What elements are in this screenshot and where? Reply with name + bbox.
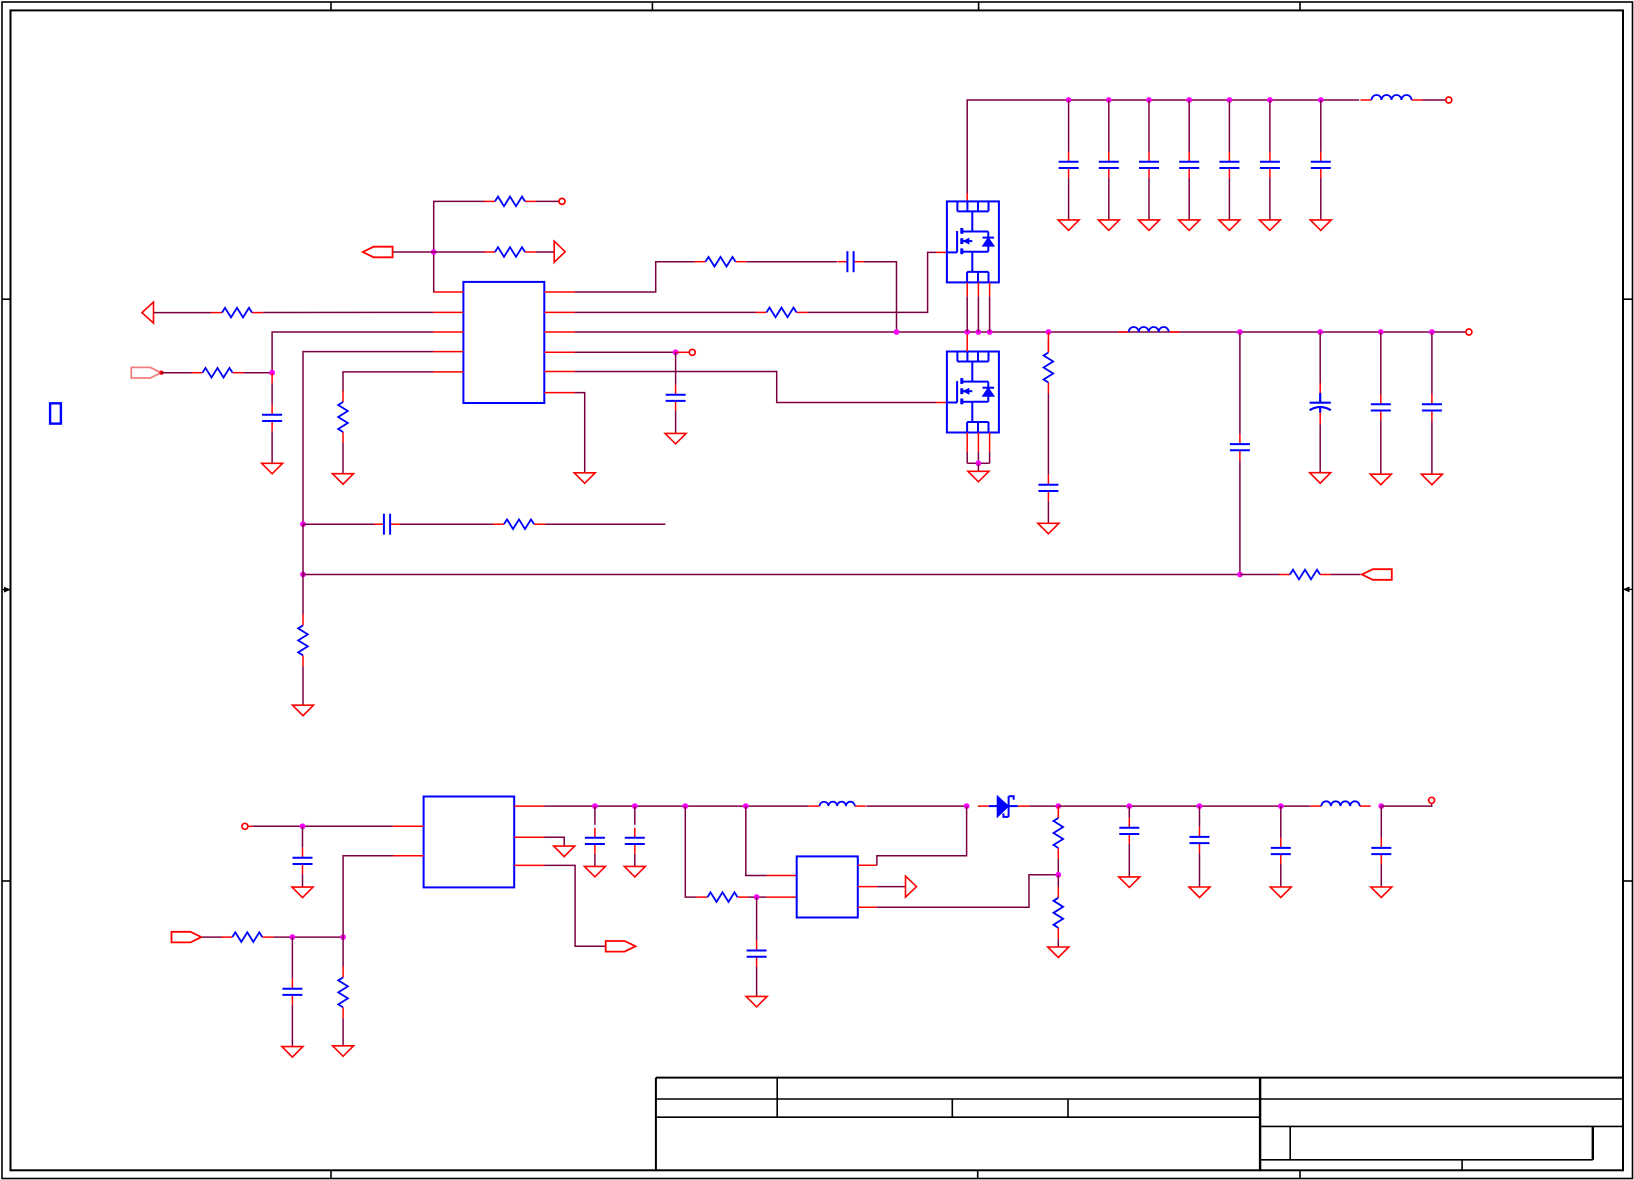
wire EN2 to C21 [291, 937, 293, 979]
ground G13 [968, 471, 989, 482]
wire R15 to ground [342, 1018, 344, 1045]
wire T2 to R3 [154, 312, 212, 314]
resistor R17 [1054, 807, 1064, 859]
capacitor C1 [262, 405, 282, 431]
capacitor C10 [1311, 152, 1331, 178]
wire C8 to ground [1228, 178, 1230, 220]
capacitor C22 [585, 828, 605, 854]
ground G26 [1119, 877, 1140, 888]
capacitor C26 [1190, 827, 1210, 853]
resistor R18 [1054, 887, 1064, 939]
ground G22 [584, 866, 605, 877]
wire VIN to C10 [1320, 100, 1322, 152]
wire EN2 to U2 pin2 [343, 856, 393, 937]
ground G25 [1048, 947, 1069, 958]
wire VOUT to C18 [1431, 332, 1433, 394]
capacitor C15 [1230, 434, 1250, 460]
junction EN2-pin [340, 934, 346, 940]
capacitor C8 [1219, 152, 1239, 178]
wire C20 to ground [302, 874, 304, 887]
capacitor C27 [1271, 838, 1291, 864]
wire FBIN to C1 [271, 383, 273, 405]
junction SW-Q1a [964, 329, 970, 335]
wire VIN to C4 [1068, 100, 1070, 152]
wire C21 to ground [291, 1005, 293, 1047]
wire VIN to C6 [1148, 100, 1150, 152]
wire VIN to C5 [1108, 100, 1110, 152]
resistor R16 [697, 892, 749, 902]
junction VIN2-C20 [300, 823, 306, 829]
wire Q2 source bus b [977, 452, 979, 464]
off-page connector T3 [906, 876, 917, 897]
resistor R11 [493, 519, 545, 529]
capacitor C28 [1371, 838, 1391, 864]
wire VOUT2 to C28 [1380, 806, 1382, 838]
capacitor C21 [282, 979, 302, 1005]
inductor L2 [1118, 327, 1180, 332]
unplaced part outline [50, 403, 61, 423]
capacitor C4 [1059, 152, 1079, 178]
ground G17 [1421, 474, 1442, 485]
capacitor C5 [1099, 152, 1119, 178]
capacitor C7 [1179, 152, 1199, 178]
junction FB-comp [300, 521, 306, 527]
wire Q2 source to ground [977, 463, 979, 471]
output terminal TP6 [1429, 797, 1435, 803]
wire C2 to node SW [864, 262, 897, 332]
resistor R6 [298, 614, 308, 666]
wire R7 to ground [342, 443, 344, 474]
R10 pin stub [1047, 332, 1049, 352]
wire FB node vertical [302, 524, 304, 614]
junction VIN-C10 [1318, 97, 1324, 103]
MOSFET Q1 (high side) [947, 201, 999, 282]
wire R18 to ground [1057, 939, 1059, 947]
wire C16 to ground [1319, 424, 1321, 472]
wire C15 to node FBOUT [1239, 460, 1241, 574]
wire VOUT2 to C26 [1199, 806, 1201, 827]
wire Q1 source c to SW [989, 297, 991, 332]
wire C5 to ground [1108, 178, 1110, 220]
FBIN stub [271, 373, 273, 383]
junction node VCC [673, 349, 679, 355]
ground G8 [1139, 220, 1160, 231]
wire VIN2 to C20 [302, 826, 304, 848]
capacitor C3 [666, 385, 686, 411]
resistor R8 [695, 257, 747, 267]
input terminal TP5 [242, 823, 248, 829]
Q1 gate pin stub [936, 251, 947, 253]
wire R8 to C2 [747, 261, 838, 263]
wire U1 pin10 to lower gate [575, 372, 936, 403]
resistor R9 [756, 308, 808, 318]
R17 pin stub [1057, 806, 1059, 818]
wire C6 to ground [1148, 178, 1150, 220]
resistor R13 [1279, 570, 1331, 580]
wire C26 to ground [1199, 853, 1201, 887]
input port connector P4 [172, 932, 202, 943]
wire R1 to test point [536, 200, 559, 202]
wire P1 to R2 [393, 251, 485, 253]
wire FB to FBOUT [303, 574, 1240, 576]
junction D1 anode [964, 803, 970, 809]
wire Q1 source b to SW [977, 297, 979, 332]
wire VREG rail [545, 805, 809, 807]
left centering arrow [2, 587, 11, 593]
capacitor C18 [1422, 394, 1442, 420]
U2 left pins [393, 826, 424, 855]
junction VREG-C22 [592, 803, 598, 809]
capacitor C24 [747, 941, 767, 967]
wire VOUT2 to C25 [1128, 806, 1130, 818]
wire VOUT to C17 [1380, 332, 1382, 394]
wire VIN to C8 [1228, 100, 1230, 152]
junction node EN [431, 249, 437, 255]
junction VIN-C9 [1267, 97, 1273, 103]
wire C19 to R11 [400, 523, 496, 525]
junction FB-divider [300, 572, 306, 578]
junction VOUT-C18 [1429, 329, 1435, 335]
ground G18 [292, 887, 313, 898]
junction VOUT2-C28 [1378, 803, 1384, 809]
wire Q2 source bus join [967, 462, 989, 464]
capacitor C20 [293, 848, 313, 874]
wire Q1 source a to SW [966, 297, 968, 332]
resistor R15 [338, 966, 348, 1018]
wire VIN to C9 [1269, 100, 1271, 152]
wire R6 to ground [302, 666, 304, 705]
wire U1 pin1 to node EN [434, 201, 485, 292]
capacitor C19 [374, 514, 400, 535]
wire U3 pin2 to arrow [877, 886, 905, 888]
wire VREG branch b down [746, 806, 767, 875]
ground G23 [624, 866, 645, 877]
Q1 drain pin stub [966, 193, 968, 201]
wire C1 to ground [271, 431, 273, 463]
wire C9 to ground [1269, 178, 1271, 220]
wire U1 pin11 to ground [575, 393, 585, 473]
ground G14 [1038, 523, 1059, 534]
junction U3 in [754, 894, 760, 900]
junction VOUT-C17 [1378, 329, 1384, 335]
resistor R2 [484, 247, 536, 257]
wire C18 to ground [1431, 420, 1433, 474]
wire C3 to ground [675, 411, 677, 434]
U1 left pins 1-5 [433, 292, 463, 372]
junction VREG-a [682, 803, 688, 809]
resistor R4 [192, 368, 244, 378]
inductor L1 (ferrite bead) [1361, 95, 1423, 100]
right centering arrow [1623, 586, 1633, 592]
junction SW-Rsnub [1046, 329, 1052, 335]
wire node SW rail [575, 331, 1466, 333]
junction VIN-C5 [1106, 97, 1112, 103]
capacitor C17 [1371, 394, 1391, 420]
ground G2 [293, 705, 314, 716]
junction VIN-C4 [1066, 97, 1072, 103]
wire C27 to ground [1280, 864, 1282, 887]
capacitor C16 (polarized) [1310, 383, 1331, 424]
title block [656, 1078, 1623, 1171]
U3 right pin stubs [858, 865, 877, 907]
wire C13 to ground [1047, 501, 1049, 523]
junction SW-RC [894, 329, 900, 335]
wire VIN to C7 [1188, 100, 1190, 152]
wire VOUT to C16 [1319, 332, 1321, 383]
wire EN2 to R15 [342, 937, 344, 966]
wire U1 pin3 to node FBIN [272, 332, 433, 373]
wire Q2 source bus c [989, 452, 991, 464]
ground G28 [1270, 887, 1291, 898]
inductor L4 [1310, 801, 1370, 806]
wire SW to C15 [1239, 332, 1241, 434]
wire U3 pin3 to divider [877, 875, 1058, 908]
test point terminal TP3 [689, 349, 695, 355]
wire VREG to C23 [634, 806, 636, 825]
Q2 source pin stubs [967, 433, 989, 452]
wire VREG to C22 [594, 806, 596, 825]
input terminal TP4 [1446, 97, 1452, 103]
wire C7 to ground [1188, 178, 1190, 220]
schottky diode D1 [978, 796, 1029, 817]
junction VREG-b [743, 803, 749, 809]
wire R4 to node FBIN [244, 372, 273, 374]
wire U2 pin4 to ground [545, 837, 565, 846]
Q1 source pin stubs [967, 283, 989, 297]
junction VIN-C7 [1186, 97, 1192, 103]
capacitor C2 [838, 251, 864, 272]
ground G7 [1098, 220, 1119, 231]
junction VOUT2-C26 [1197, 803, 1203, 809]
ground G9 [1179, 220, 1200, 231]
wire R3 to U1 pin2 [263, 311, 433, 313]
ground G16 [1370, 474, 1391, 485]
wire to terminal TP6 [1381, 803, 1431, 806]
wire C10 to ground [1320, 178, 1322, 220]
regulator IC U2 [424, 797, 515, 888]
Q2 drain pin stub [966, 334, 968, 351]
wire R16 to U3 [749, 896, 767, 898]
ground G11 [1259, 220, 1280, 231]
junction node ADJ [1055, 872, 1061, 878]
VCC pin stub [676, 351, 690, 353]
wire U3 in to C24 [756, 897, 758, 940]
wire D1 to VOUT2 [1029, 805, 1058, 807]
wire U1 pin7 to upper gate [575, 311, 756, 313]
wire R9 to Q1 gate [808, 252, 937, 312]
ground G5 [574, 473, 595, 484]
wire R13 to port P3 [1331, 574, 1361, 576]
input port connector P2 [131, 367, 161, 378]
wire U2 pin5 to port [545, 865, 606, 946]
junction VOUT-C16 [1317, 329, 1323, 335]
wire FB comp branch [303, 523, 376, 525]
controller IC U1 [463, 282, 544, 403]
capacitor C25 [1119, 818, 1139, 844]
ground G4 [665, 433, 686, 444]
junction Q2 source [976, 460, 982, 466]
wire VOUT2 to C27 [1280, 806, 1282, 838]
junction SW-Q1c [987, 329, 993, 335]
resistor R10 [1044, 342, 1054, 394]
capacitor C13 [1038, 475, 1058, 501]
capacitor C6 [1139, 152, 1159, 178]
ground G24 [746, 996, 767, 1007]
MOSFET Q2 (low side) [947, 352, 999, 433]
wire C22 to ground [594, 854, 596, 866]
wire VREG branch a down [685, 806, 696, 897]
junction EN2-C21 [290, 934, 296, 940]
wire U1 pin5 to R7 [343, 372, 433, 392]
resistor R14 [221, 932, 273, 942]
resistor R1 [484, 197, 536, 207]
off-page connector T1 [554, 241, 565, 262]
junction SW-C15 [1237, 329, 1243, 335]
wire VOUT2 rail [1058, 805, 1310, 807]
supervisor IC U3 [797, 856, 858, 917]
wire C24 to ground [756, 967, 758, 997]
wire C28 to ground [1380, 864, 1382, 887]
port connector P5 [606, 941, 636, 952]
ground G19 [282, 1047, 303, 1058]
wire R14 to node EN2 [273, 936, 343, 938]
junction node FBIN [269, 370, 275, 376]
ground G3 [333, 474, 354, 485]
resistor R7 [338, 391, 348, 443]
wire R2 to off-page arrow [536, 251, 554, 253]
wire L1 to terminal [1422, 99, 1445, 101]
wire TP5 to U2 [253, 825, 393, 827]
output terminal TP2 [1466, 329, 1472, 335]
wire L3 to D1 [866, 805, 966, 807]
wire R10 to C13 [1047, 394, 1049, 475]
wire U1 pin4 to node FB [303, 352, 433, 525]
wire VCC to C3 [675, 352, 677, 384]
ground G1 [262, 463, 283, 474]
junction VOUT2-C25 [1126, 803, 1132, 809]
wire FBOUT to R13 [1240, 574, 1280, 576]
capacitor C23 [625, 828, 645, 854]
wire U1 pin6 to R8 [575, 262, 695, 292]
U3 left pin stubs [767, 876, 797, 898]
wire C25 to ground [1128, 844, 1130, 877]
wire R11 stub end [545, 523, 665, 525]
wire ADJ to R18 [1057, 875, 1059, 887]
inductor L3 [809, 802, 866, 806]
ground G15 [1310, 473, 1331, 484]
junction VIN-C6 [1146, 97, 1152, 103]
resistor R3 [211, 308, 263, 318]
ground G29 [1371, 887, 1392, 898]
junction node FBOUT [1237, 572, 1243, 578]
ground G12 [1310, 220, 1331, 231]
ground G10 [1219, 220, 1240, 231]
ground G6 [1058, 220, 1079, 231]
junction VIN-C8 [1227, 97, 1233, 103]
wire C4 to ground [1068, 178, 1070, 220]
junction SW-Q1b [976, 329, 982, 335]
U2 right pins [514, 806, 544, 865]
wire P2 to R4 [161, 372, 197, 374]
test point terminal TP1 [559, 198, 565, 204]
wire R17 to node ADJ [1057, 859, 1059, 875]
port connector P1 [363, 247, 393, 258]
wire U1 pin9 to node VCC [575, 351, 676, 353]
port connector P3 [1362, 569, 1392, 580]
TP5 pin stub [248, 825, 253, 827]
wire P4 to R14 [202, 936, 222, 938]
ground G21 [554, 846, 575, 857]
wire Q2 source bus a [966, 452, 968, 464]
pin dot P2 [159, 371, 163, 375]
junction VREG-C23 [632, 803, 638, 809]
junction VOUT2-R17 [1055, 803, 1061, 809]
wire VIN rail [967, 100, 1359, 194]
wire U3 pin1 to D1 anode [877, 806, 967, 865]
wire C17 to ground [1380, 420, 1382, 474]
Q2 gate pin stub [936, 402, 947, 404]
ground G20 [333, 1046, 354, 1057]
wire C23 to ground [634, 854, 636, 866]
ground G27 [1189, 887, 1210, 898]
U1 right pins 6-11 [544, 292, 575, 393]
off-page connector T2 [142, 302, 154, 323]
junction VOUT2-C27 [1278, 803, 1284, 809]
capacitor C9 [1260, 152, 1280, 178]
